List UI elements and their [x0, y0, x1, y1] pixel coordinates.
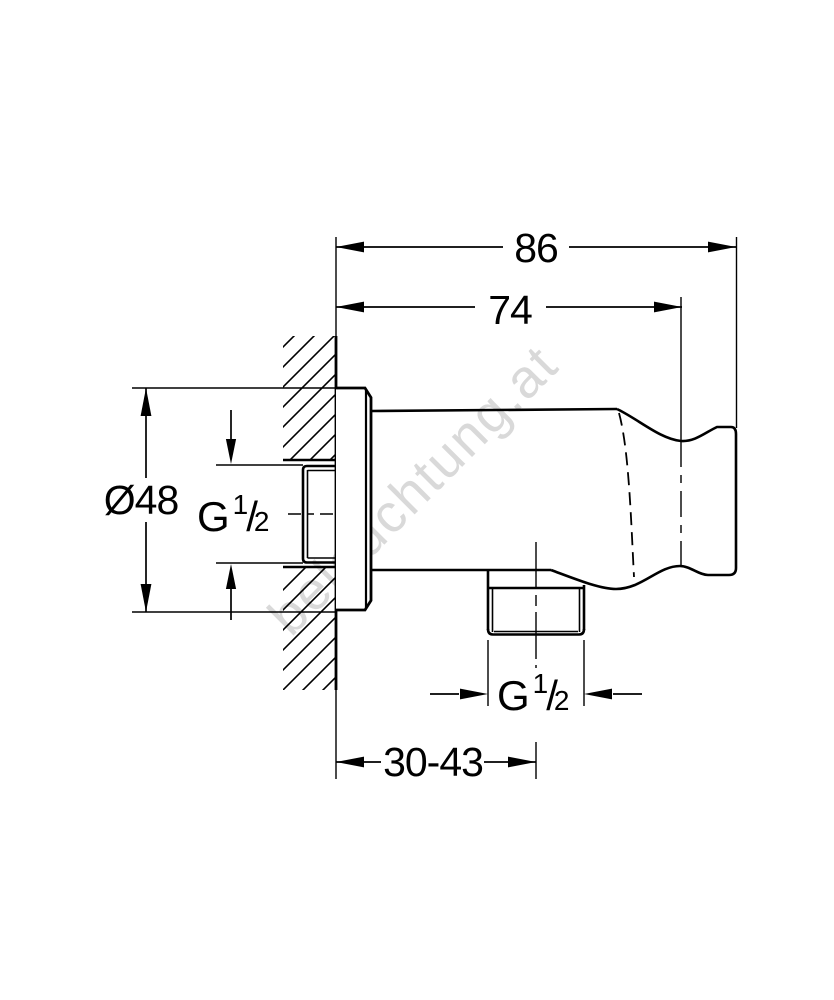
dimension 86: [336, 246, 736, 248]
left extension line / wall face extension: [335, 237, 337, 337]
wall hatching bottom band: [263, 470, 403, 790]
inlet union nut G1/2 in wall: [303, 466, 336, 563]
holder silhouette top dip and right edge: [551, 409, 736, 589]
extension line right for 86: [736, 237, 738, 428]
centerline to inlet: [288, 513, 336, 515]
svg-text:74: 74: [488, 287, 532, 333]
hidden edge dashed: [619, 413, 634, 577]
svg-text:86: 86: [514, 225, 558, 271]
small dimension arrows for inlet thread: [216, 410, 303, 620]
wall hatching top band: [263, 227, 403, 547]
dimension diameter 48: [132, 388, 366, 612]
outlet centerline: [535, 542, 537, 668]
wall hole bottom edge: [283, 566, 337, 569]
extension line right for 74: [680, 297, 682, 441]
holder centerline continuation: [680, 441, 682, 566]
wall face line: [335, 336, 338, 690]
dimension 74: [336, 306, 682, 308]
body bottom edge: [372, 569, 551, 572]
dimension 30-43: [336, 761, 381, 763]
dimension G 1/2 bottom: [430, 693, 459, 695]
flange face edge: [365, 390, 367, 608]
flange escutcheon: [336, 388, 371, 610]
svg-text:Ø48: Ø48: [104, 477, 179, 523]
body top edge: [372, 409, 617, 411]
outlet extension lines: [487, 640, 489, 706]
svg-text:30-43: 30-43: [383, 739, 483, 785]
outlet connector G1/2: [488, 570, 584, 635]
wall hole top edge: [283, 459, 337, 462]
